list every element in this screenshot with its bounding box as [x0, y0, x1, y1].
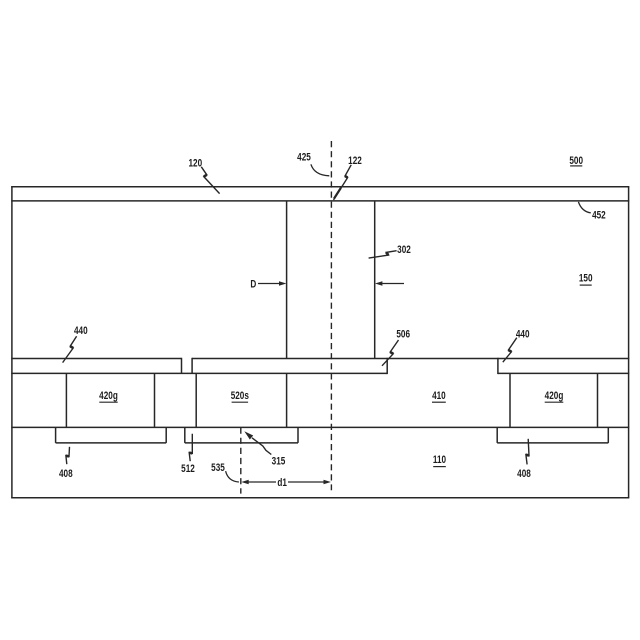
strip 408 right left wall — [496, 427, 498, 443]
leader bolt for 506 — [382, 340, 399, 366]
label 420g right — [545, 390, 564, 403]
leader bolt for 408 right — [526, 439, 529, 465]
step 506 vertical — [386, 358, 388, 374]
curved leader for 425 — [311, 164, 329, 176]
label 120 — [188, 157, 202, 170]
strip 408 left bottom — [56, 442, 167, 444]
outer right edge — [628, 186, 630, 498]
gate 420g left box right wall — [154, 373, 156, 427]
svg-text:315: 315 — [272, 455, 286, 468]
svg-text:506: 506 — [396, 328, 410, 341]
source 520s box right wall — [286, 373, 288, 427]
opening 302 right wall — [374, 201, 376, 359]
outer structure 500 top edge — [11, 186, 629, 188]
strip 408 left wall — [55, 427, 57, 443]
reference line 535 dashed — [240, 428, 242, 494]
curved leader for 535 — [226, 471, 239, 482]
label 500 — [569, 155, 583, 168]
label 512 — [181, 463, 195, 476]
label 408 left — [59, 468, 73, 481]
svg-text:440: 440 — [516, 328, 530, 341]
leader bolt for 440 left — [63, 336, 77, 362]
gate-layer top line left of notch — [11, 358, 181, 360]
leader bolt for 122 — [334, 165, 352, 200]
svg-text:512: 512 — [181, 463, 195, 476]
svg-text:d1: d1 — [277, 477, 287, 490]
centerline 425/122 dashed — [330, 141, 332, 490]
strip 408 right right wall — [607, 427, 609, 443]
gate-layer bottom line right part — [498, 372, 629, 374]
dimension arrow D left — [258, 281, 286, 286]
svg-text:408: 408 — [517, 468, 531, 481]
source 520s box left wall — [195, 373, 197, 427]
label 150 — [579, 273, 593, 286]
layer 120 bottom line — [11, 200, 629, 202]
svg-text:150: 150 — [579, 273, 593, 286]
layer 410 bottom line — [11, 426, 629, 428]
label 122 — [348, 155, 362, 168]
leader arrow for 315 — [244, 431, 271, 454]
leader bolt for 120 — [201, 167, 219, 194]
svg-text:440: 440 — [74, 325, 88, 338]
label 520s — [231, 390, 250, 403]
svg-text:122: 122 — [348, 155, 362, 168]
label 535 — [211, 462, 225, 475]
svg-text:110: 110 — [433, 454, 447, 467]
svg-text:120: 120 — [188, 157, 202, 170]
label 440 left — [74, 325, 88, 338]
strip 408 right bottom — [497, 442, 608, 444]
svg-text:420g: 420g — [545, 390, 564, 403]
label 506 — [396, 328, 410, 341]
strip 408 left right wall — [165, 427, 167, 443]
strip 315 middle right wall — [297, 427, 299, 443]
curved leader for 452 — [578, 202, 590, 213]
svg-text:520s: 520s — [231, 390, 250, 403]
label 408 right — [517, 468, 531, 481]
gate 420g left box left wall — [65, 373, 67, 427]
label d1 — [277, 477, 287, 490]
opening 302 left wall — [286, 201, 288, 359]
gate 420g right box left wall — [509, 373, 511, 427]
label 420g left — [99, 390, 118, 403]
strip 315 middle left wall — [184, 427, 186, 443]
dimension d1 line with arrows — [241, 480, 331, 485]
gate 420g right box right wall — [597, 373, 599, 427]
svg-text:D: D — [250, 278, 256, 291]
svg-text:302: 302 — [397, 244, 411, 257]
svg-text:420g: 420g — [99, 390, 118, 403]
notch 512 left wall — [181, 358, 183, 374]
label 425 — [297, 151, 311, 164]
leader bolt for 408 left — [66, 447, 70, 464]
strip 315 middle bottom — [185, 442, 298, 444]
svg-text:535: 535 — [211, 462, 225, 475]
notch 512 right wall — [191, 358, 193, 374]
outer bottom edge of substrate 110 — [11, 497, 629, 499]
svg-text:410: 410 — [432, 390, 446, 403]
leader bolt for 440 right — [503, 338, 517, 363]
svg-text:452: 452 — [592, 209, 606, 222]
label 410 — [432, 390, 446, 403]
outer left edge — [11, 186, 13, 498]
label 440 right — [516, 328, 530, 341]
label 452 — [592, 209, 606, 222]
leader bolt for 512 — [189, 434, 192, 461]
label 315 — [272, 455, 286, 468]
dimension arrow D right — [375, 281, 404, 286]
leader bolt tip emphasis for 122 — [334, 188, 341, 199]
gate-layer bottom line left part — [11, 372, 387, 374]
svg-text:425: 425 — [297, 151, 311, 164]
gate-layer top line right of notch — [192, 358, 629, 360]
label 302 — [397, 244, 411, 257]
svg-text:408: 408 — [59, 468, 73, 481]
label 110 — [433, 454, 447, 467]
leader bolt for 302 — [369, 251, 397, 258]
label D — [250, 278, 256, 291]
step right vertical — [497, 358, 499, 374]
